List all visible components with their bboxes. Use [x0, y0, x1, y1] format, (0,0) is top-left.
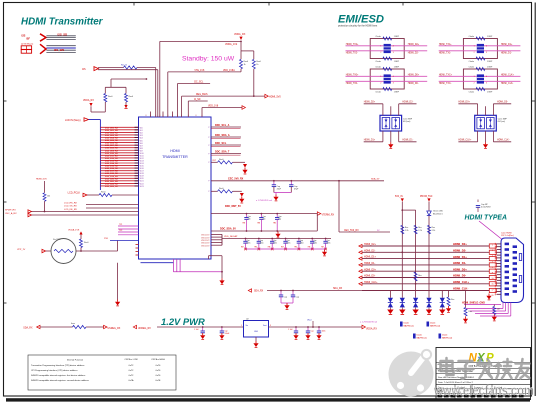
watermark chinese glyph strokes	[441, 358, 530, 378]
wire pin177 horizontal	[178, 83, 211, 85]
off-page arrow LCD_PCLK	[83, 193, 87, 196]
wire decoupling rail	[222, 238, 331, 240]
svg-text:VD21: VD21	[140, 181, 144, 183]
svg-text:47p: 47p	[278, 219, 281, 221]
svg-text:19: 19	[492, 295, 494, 297]
svg-text:Cap: Cap	[296, 297, 299, 299]
svg-text:HDMI_D0+: HDMI_D0+	[453, 267, 467, 271]
wire shield magenta line	[464, 304, 501, 306]
svg-text:17: 17	[492, 289, 494, 291]
ground groupA	[286, 303, 288, 305]
svg-text:HDMI_D2+: HDMI_D2+	[408, 44, 420, 46]
ground C19	[318, 333, 320, 335]
ground ESD x=415.6	[412, 310, 418, 315]
svg-text:Vin: Vin	[246, 325, 249, 327]
off-page arrow pin202	[242, 106, 245, 110]
capacitor bank C3-C9	[245, 239, 247, 242]
wire branch to 415	[402, 209, 415, 211]
wire U4 top centre stub	[485, 106, 487, 115]
wire U3 top centre stub	[390, 106, 392, 115]
svg-text:VD3: VD3	[140, 135, 143, 137]
svg-text:Green LED: Green LED	[433, 211, 444, 213]
svg-text:47p: 47p	[262, 219, 265, 221]
svg-text:DDC_SCL_A: DDC_SCL_A	[215, 124, 230, 127]
wire U1 top pin riser 181	[181, 96, 183, 117]
svg-text:HDMI_D0-: HDMI_D0-	[364, 275, 375, 278]
transformer core L4	[477, 74, 484, 83]
wire cap C1 stub	[273, 181, 275, 185]
filter L2 common-mode choke box	[463, 39, 497, 59]
svg-text:VDDC1V2: VDDC1V2	[201, 240, 209, 242]
junction marks under capacitor bank	[244, 248, 247, 251]
title block outline	[436, 348, 531, 400]
svg-text:0x76: 0x76	[156, 375, 161, 377]
svg-text:TP2: TP2	[119, 230, 122, 232]
svg-text:CI2CA = HIGH: CI2CA = HIGH	[151, 358, 165, 361]
sheet border right double line	[534, 3, 536, 397]
resistor on vertical x=429	[428, 225, 431, 234]
svg-text:HDMI_CLK-: HDMI_CLK-	[501, 83, 514, 85]
svg-text:Choke: Choke	[469, 36, 474, 38]
wire U1 vdd pin stubs	[211, 233, 222, 235]
wire U3 bottom right pin	[398, 131, 400, 142]
svg-text:100n: 100n	[313, 243, 317, 245]
ESD protection array U3 body	[380, 115, 402, 131]
svg-text:UNREG_RX: UNREG_RX	[108, 328, 121, 330]
svg-text:13: 13	[492, 278, 494, 280]
svg-text:BF: BF	[27, 36, 31, 40]
svg-text:Diode: Diode	[404, 323, 410, 325]
svg-text:VDDC1V2: VDDC1V2	[201, 245, 209, 247]
off-page arrow bus 5	[359, 270, 362, 273]
svg-text:HDMI_TX2-: HDMI_TX2-	[346, 52, 358, 54]
resistor R1 vertical	[240, 59, 243, 69]
svg-text:BAV99(sot): BAV99(sot)	[442, 336, 452, 339]
wire magenta pin row 2	[118, 228, 139, 230]
wire LCD data bus 24 lines	[100, 126, 138, 128]
transformer core L3	[384, 74, 391, 83]
off-page arrow bus 2	[359, 251, 362, 254]
off-page arrow subrail left	[37, 325, 40, 328]
net label DDC_SCL_A underline	[211, 128, 241, 130]
resistor R4 vertical	[125, 94, 128, 103]
svg-text:HM: HM	[273, 223, 276, 225]
wire U2 gnd stub	[255, 337, 257, 341]
svg-text:P: P	[208, 127, 209, 129]
ground C17	[295, 333, 297, 335]
svg-text:Res0: Res0	[219, 188, 223, 190]
wire INT row	[211, 161, 218, 163]
diode D7 ESD bidirectional	[400, 298, 405, 303]
wire U1 top short stub b	[162, 112, 164, 118]
svg-text:5V: 5V	[377, 230, 380, 232]
wire Vbat stub	[312, 321, 314, 327]
wire LCD bus entry	[89, 119, 101, 121]
diode part labels group	[400, 322, 403, 327]
wire cap C18 stub	[307, 327, 309, 331]
svg-text:100n: 100n	[273, 243, 277, 245]
svg-text:HDMI_CLK+: HDMI_CLK+	[453, 280, 469, 284]
svg-text:VD19: VD19	[140, 176, 144, 178]
svg-text:INT: INT	[213, 160, 217, 162]
wire R10 drop	[465, 291, 467, 308]
svg-text:2.2k: 2.2k	[418, 230, 422, 232]
resistor R22 vertical	[43, 193, 46, 202]
svg-text:VTERM_RX: VTERM_RX	[322, 215, 335, 217]
sheet border bottom thick bar	[6, 398, 530, 401]
svg-text:VD17: VD17	[140, 171, 144, 173]
svg-text:Choke: Choke	[469, 61, 474, 63]
svg-text:VD23: VD23	[140, 186, 144, 188]
wire C12 to J1	[477, 207, 479, 212]
svg-text:100n: 100n	[287, 243, 291, 245]
wire vertical 402	[401, 202, 403, 297]
svg-text:UNREG_RX: UNREG_RX	[138, 328, 151, 330]
svg-text:LCD_D04_RX: LCD_D04_RX	[105, 137, 118, 140]
wire HDMI bus line 1	[362, 245, 489, 247]
svg-text:VD18: VD18	[140, 173, 144, 175]
ground under C2	[275, 195, 277, 197]
svg-text:Diode: Diode	[417, 335, 423, 337]
svg-text:Choke: Choke	[469, 92, 474, 94]
resistor R8 vertical with ground	[448, 291, 450, 298]
svg-text:8: 8	[196, 115, 197, 117]
off-page arrow UNREG	[133, 325, 136, 328]
svg-text:I2S: I2S	[82, 68, 86, 71]
svg-text:LCD_D23_RX: LCD_D23_RX	[105, 186, 118, 188]
svg-text:Choke: Choke	[375, 66, 380, 68]
svg-text:VD12: VD12	[140, 158, 144, 160]
svg-text:BAV99(sot): BAV99(sot)	[430, 324, 440, 327]
svg-text:HM: HM	[254, 247, 257, 249]
resistor on bottom edge of L1	[383, 57, 392, 60]
wire L4 line pair	[439, 75, 477, 77]
wire I2S pin riser a	[155, 68, 157, 118]
svg-text:5: 5	[492, 256, 493, 258]
resistor on vertical x=415.6	[414, 225, 417, 234]
svg-text:Res: Res	[469, 311, 472, 313]
wire blue bottom	[141, 262, 174, 264]
op-amp U1 HDMI transmitter IC body	[139, 117, 212, 259]
ground ESD x=442.3	[439, 310, 445, 315]
U1 left bus pin ticks	[135, 126, 139, 128]
ESD protection array U4 body	[475, 115, 497, 131]
svg-text:1 BKP: 1 BKP	[487, 92, 493, 94]
wire U4 bottom right pin	[492, 131, 494, 142]
svg-text:VD2: VD2	[140, 133, 143, 135]
svg-text:3: 3	[486, 82, 487, 84]
filter L4 common-mode choke box	[463, 69, 497, 89]
off-page arrow DDC a	[317, 212, 320, 216]
svg-text:REG_BIAS: REG_BIAS	[196, 93, 208, 96]
ground U1 bottom	[221, 278, 223, 280]
svg-text:HM: HM	[243, 223, 246, 225]
svg-text:HDMI_D1+: HDMI_D1+	[501, 44, 513, 46]
svg-text:Res0: Res0	[129, 96, 133, 98]
svg-text:DDC_SDA_T: DDC_SDA_T	[215, 151, 230, 154]
svg-text:I2S_SD: I2S_SD	[58, 32, 68, 36]
svg-text:HDMI TYPEA: HDMI TYPEA	[465, 214, 508, 221]
wire vdd vertical bar	[221, 234, 223, 245]
svg-text:1 BKP: 1 BKP	[394, 66, 400, 68]
svg-text:HM: HM	[321, 247, 324, 249]
off-page arrow SPDIF	[28, 210, 32, 213]
svg-text:100n: 100n	[327, 243, 331, 245]
svg-text:TP1: TP1	[119, 224, 122, 226]
wire magenta pin row 3	[118, 231, 139, 233]
svg-text:1 BKP: 1 BKP	[394, 36, 400, 38]
svg-text:Cap: Cap	[311, 331, 314, 333]
svg-text:9: 9	[492, 267, 493, 269]
off-page arrow bus 1	[359, 244, 362, 247]
NXP logo X blue half	[478, 357, 483, 362]
wire I2S row A line 1	[46, 35, 75, 37]
svg-text:HM: HM	[241, 247, 244, 249]
off-page arrow groupA	[248, 289, 251, 292]
wire rail top horizontal	[105, 86, 126, 88]
diode D3 with ground	[243, 164, 247, 168]
svg-text:1: 1	[380, 46, 381, 48]
wire into crystal X1	[46, 250, 52, 252]
svg-text:Cap: Cap	[284, 297, 287, 299]
sheet border zone ticks	[532, 100, 536, 102]
svg-text:1: 1	[474, 46, 475, 48]
svg-text:a 1.2V/DVDD rail: a 1.2V/DVDD rail	[256, 199, 272, 202]
svg-text:VD22: VD22	[140, 183, 144, 185]
off-page arrow bus 4	[359, 263, 362, 266]
svg-text:VDD_1V8A: VDD_1V8A	[223, 69, 235, 72]
capacitor C18	[306, 330, 310, 332]
wire L2 line pair	[439, 45, 477, 47]
wire U1 right row 4	[211, 153, 241, 155]
svg-text:2: 2	[380, 82, 381, 84]
svg-text:LCD IN (Navy): LCD IN (Navy)	[65, 119, 81, 122]
svg-text:HDMI_TX0+: HDMI_TX0+	[346, 75, 359, 77]
svg-text:3: 3	[393, 82, 394, 84]
wire CEC lower horizontal	[339, 231, 390, 233]
svg-text:10k: 10k	[47, 196, 50, 198]
svg-text:VDDC1V2: VDDC1V2	[201, 235, 209, 237]
wire rail riser b	[125, 87, 127, 93]
resistor R25 on I2S line	[124, 66, 138, 69]
svg-text:I2C_SCL: I2C_SCL	[194, 81, 204, 83]
resistor R2 vertical	[252, 59, 255, 69]
watermark gray mascot disc	[389, 350, 434, 397]
svg-text:HDMI_D0-: HDMI_D0-	[408, 83, 419, 85]
title block v-dividers	[454, 384, 456, 399]
wire ESD stub x=390.4	[389, 291, 391, 298]
svg-text:VDDA_1V8: VDDA_1V8	[68, 229, 80, 232]
wire HDMI_5V horizontal	[182, 95, 265, 97]
capacitor C17	[294, 330, 298, 332]
svg-text:Res: Res	[418, 275, 421, 277]
capacitor C19	[317, 330, 321, 332]
svg-text:HDMI_D1+: HDMI_D1+	[364, 140, 376, 142]
svg-text:1 BKP: 1 BKP	[487, 66, 493, 68]
ground near J1 shield	[488, 294, 490, 296]
svg-text:4: 4	[486, 46, 487, 48]
power arrow 5V0_IN	[401, 198, 404, 201]
ground R10	[465, 317, 467, 319]
svg-text:HDMI_D2+: HDMI_D2+	[364, 101, 376, 103]
ground U4	[485, 131, 487, 142]
wire U4 bottom left pin	[477, 131, 479, 142]
wire VDDA junction drop	[240, 41, 242, 51]
title block bottom black cells	[438, 395, 443, 398]
crystal X1 circle	[51, 239, 76, 264]
svg-text:CPI Programming Interface (CPI: CPI Programming Interface (CPI) device a…	[31, 369, 78, 372]
wire cap C19 stub	[318, 327, 320, 331]
svg-text:SDA_5V: SDA_5V	[371, 178, 380, 181]
wire rail top stub up	[110, 79, 112, 87]
svg-text:TRANSMITTER: TRANSMITTER	[162, 155, 188, 159]
svg-text:SDA_RX: SDA_RX	[333, 287, 343, 290]
svg-text:100nF: 100nF	[225, 333, 230, 335]
svg-text:protection circuitry for the H: protection circuitry for the HDMI lines	[338, 25, 378, 28]
svg-text:HDMI_D2+: HDMI_D2+	[364, 243, 376, 246]
off-page arrow bus 7	[359, 282, 362, 285]
wire CEC vertical drop	[338, 181, 340, 232]
svg-text:HDMI_D0-: HDMI_D0-	[453, 274, 466, 278]
wire blue-bottom ground drop	[117, 263, 119, 300]
svg-text:VD8: VD8	[140, 148, 143, 150]
svg-text:Diode: Diode	[442, 335, 448, 337]
wire HDMI bus line 2	[362, 251, 489, 253]
wire vertical 429 lower	[428, 216, 430, 297]
net label DDC_SCL underline	[211, 146, 241, 148]
off-page arrow CEC_A	[28, 213, 32, 216]
resistor inside crystal X1	[54, 249, 73, 252]
svg-text:CEC_5V0_RX: CEC_5V0_RX	[228, 177, 244, 180]
svg-text:Res 1k: Res 1k	[121, 64, 127, 66]
svg-text:Standby: 150 uW: Standby: 150 uW	[182, 55, 235, 62]
svg-text:VD14: VD14	[140, 163, 144, 165]
svg-text:HDMI_CLK+: HDMI_CLK+	[458, 140, 472, 142]
svg-text:2: 2	[474, 82, 475, 84]
wire ESD stub x=442.3	[441, 291, 443, 298]
wire I2S pin riser b	[157, 70, 159, 117]
diode D6 ESD bidirectional	[388, 298, 393, 303]
U1 left lower pin ticks	[136, 244, 139, 246]
svg-text:HDMI_D2+: HDMI_D2+	[453, 242, 467, 246]
wire HDMI bus line 6	[362, 277, 489, 279]
ground DDC bank	[277, 232, 279, 234]
wire I2S row B line 1	[46, 45, 75, 47]
svg-text:100n: 100n	[247, 243, 251, 245]
resistor R23 vertical	[80, 239, 83, 248]
svg-text:Vout: Vout	[263, 324, 267, 327]
off-page arrow LCD bus	[84, 118, 89, 122]
off-page connector I2S row A chevron	[40, 34, 46, 41]
wire split right stub	[253, 51, 255, 59]
wire I2S row B line 2	[46, 47, 75, 49]
svg-text:Internal Function: Internal Function	[67, 358, 84, 361]
wire DDC row b	[211, 230, 317, 232]
filter L3 common-mode choke box	[370, 69, 404, 89]
wire cap C17 stub	[295, 327, 297, 331]
svg-text:Vbat: Vbat	[307, 318, 312, 321]
svg-text:LCD_HS_RX: LCD_HS_RX	[64, 202, 77, 204]
wire HDMI bus line 5	[362, 270, 489, 272]
wire VDDA_1V8 stub	[80, 232, 82, 239]
off-page arrow XTAL	[42, 249, 46, 252]
svg-text:HDMI_5V0: HDMI_5V0	[36, 179, 47, 181]
svg-text:P: P	[208, 154, 209, 156]
svg-text:Res0: Res0	[84, 242, 88, 244]
svg-text:Choke: Choke	[375, 92, 380, 94]
svg-text:2.2k: 2.2k	[405, 230, 409, 232]
svg-text:0.01uF/2kV: 0.01uF/2kV	[481, 207, 491, 209]
svg-text:CEC_A_RX: CEC_A_RX	[5, 212, 17, 215]
off-page connector I2S row B chevron	[40, 44, 46, 54]
wire vertical 429 upper	[428, 202, 430, 210]
wire I2S row B line 3	[46, 49, 75, 51]
svg-text:0x7E: 0x7E	[156, 380, 161, 382]
svg-text:HM: HM	[294, 247, 297, 249]
wire U1 right row 3	[211, 144, 241, 146]
svg-text:1 BKP: 1 BKP	[487, 36, 493, 38]
wire ESD stub x=429	[428, 296, 430, 299]
wire shield stubs	[466, 308, 503, 310]
svg-text:HDMI_D1-: HDMI_D1-	[364, 262, 375, 265]
svg-text:SiI9022-compatible internal re: SiI9022-compatible internal registers: s…	[31, 379, 89, 382]
wire LCD bus vertical gather line	[99, 120, 101, 191]
wire subrail a	[40, 326, 73, 328]
svg-text:HDMI_TXC-: HDMI_TXC-	[439, 83, 452, 85]
svg-text:VTE_1V8: VTE_1V8	[194, 70, 205, 72]
svg-text:100n: 100n	[260, 243, 264, 245]
svg-text:0x72: 0x72	[129, 375, 134, 377]
wire VDDA split horizontal	[241, 50, 254, 52]
svg-text:HDMI_D2-: HDMI_D2-	[364, 249, 375, 252]
svg-text:5V0_IN: 5V0_IN	[395, 196, 403, 198]
resistor on top edge of L2	[476, 37, 485, 40]
ground ESD x=429	[426, 310, 432, 315]
wire U3 top right pin	[398, 104, 400, 116]
wire CTL row3	[32, 211, 139, 213]
svg-text:HDMI_CLK-: HDMI_CLK-	[497, 140, 510, 142]
svg-text:P: P	[208, 137, 209, 139]
svg-text:1: 1	[492, 245, 493, 247]
wire U1 top bias riser	[167, 72, 169, 117]
wire U1 top pin riser 188	[187, 101, 189, 117]
wire R1 bottom to bias line	[240, 69, 242, 72]
wire I2S row A line 2	[46, 37, 75, 39]
svg-text:HDMI_D1+: HDMI_D1+	[453, 255, 467, 259]
svg-text:VDDC1V2: VDDC1V2	[201, 243, 209, 245]
svg-text:3: 3	[486, 52, 487, 54]
wire capA2 stub	[292, 291, 294, 296]
wire HDMI bus line 4	[362, 264, 489, 266]
table address map box	[28, 355, 176, 390]
wire U1 top short stub a	[149, 112, 151, 118]
wire XTAL blue entry	[110, 240, 139, 242]
svg-text:P: P	[208, 191, 209, 193]
wire bias horizontal	[168, 71, 241, 73]
svg-text:100n: 100n	[300, 243, 304, 245]
connector J1 red pin ticks	[494, 243, 496, 245]
wire U3 bottom left pin	[382, 131, 384, 142]
net label DDC_SDA_A underline	[211, 138, 241, 140]
svg-text:GND: GND	[254, 331, 259, 333]
wire DDC loop vertical	[316, 214, 318, 231]
svg-text:CEC_5V0_RX: CEC_5V0_RX	[344, 230, 359, 232]
wire R22 to bundle	[44, 201, 46, 211]
svg-text:HDMI Transmitter: HDMI Transmitter	[21, 17, 104, 28]
connector J1 left pin pads	[505, 243, 509, 246]
resistor on bottom edge of L2	[476, 57, 485, 60]
svg-text:0x72: 0x72	[129, 365, 134, 367]
